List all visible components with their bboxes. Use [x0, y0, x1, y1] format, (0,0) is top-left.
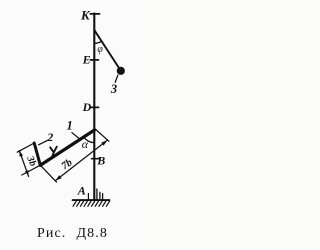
- svg-text:A: A: [77, 183, 86, 197]
- dimension 3b: arrowhead bottom: [25, 170, 29, 176]
- angle phi arc: [94, 41, 101, 43]
- dimension 3b: dimension line: [19, 151, 28, 177]
- svg-text:7b: 7b: [60, 157, 75, 172]
- ball 3: [117, 67, 125, 75]
- dimension 7b: extension line at C1: [40, 165, 56, 182]
- ground hatching: [73, 201, 110, 206]
- top tick at K: [90, 13, 99, 15]
- svg-text:E: E: [82, 53, 91, 67]
- dimension 7b: arrowhead at lower end: [55, 175, 61, 181]
- rod end piece (bent end, length 3b): [34, 143, 40, 165]
- svg-text:Рис. Д8.8: Рис. Д8.8: [37, 226, 108, 241]
- leader line for label 1: [72, 133, 80, 140]
- svg-text:K: K: [80, 7, 91, 22]
- svg-text:3: 3: [110, 82, 117, 96]
- ball 2 (gamma-like mark on rod): [50, 147, 57, 159]
- svg-text:B: B: [96, 154, 105, 168]
- svg-text:φ: φ: [97, 44, 103, 55]
- svg-text:1: 1: [67, 119, 73, 133]
- svg-text:2: 2: [46, 130, 53, 144]
- dimension 7b: extension line at B: [95, 129, 109, 141]
- svg-text:D: D: [82, 100, 92, 114]
- dimension 7b: dimension line: [55, 140, 107, 181]
- vertical shaft K-A: [93, 13, 95, 200]
- angle alpha arc: [84, 137, 95, 143]
- rod 1 (tube) from B down-left: [40, 130, 94, 165]
- string (thread) to ball 3: [95, 30, 119, 67]
- leader line for label 3: [115, 75, 118, 82]
- tick at B: [92, 158, 100, 160]
- svg-text:α: α: [82, 137, 89, 151]
- tick at E: [90, 59, 98, 61]
- bearing strokes at A: [87, 194, 89, 200]
- dimension 7b: arrowhead at B end: [101, 140, 107, 146]
- dimension 3b: extension line at C1: [22, 165, 41, 175]
- ground line: [73, 199, 110, 201]
- tail stroke of label 2: [39, 141, 48, 145]
- dimension 3b: extension line at C2: [17, 143, 34, 152]
- dimension 3b: arrowhead top: [19, 151, 23, 157]
- tick at D: [90, 106, 99, 108]
